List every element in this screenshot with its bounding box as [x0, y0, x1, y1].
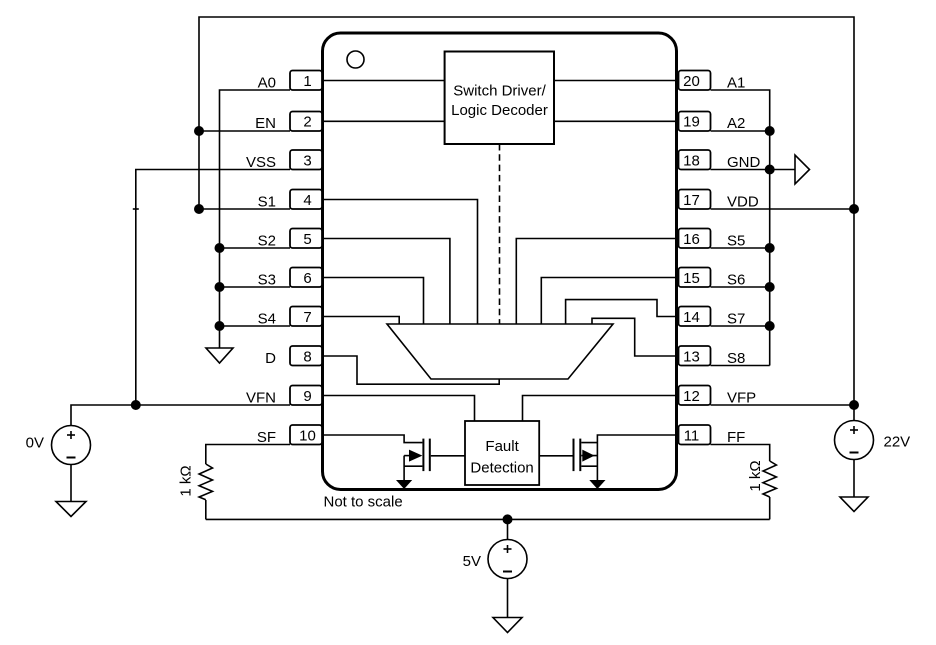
node S6 junction [765, 282, 775, 292]
wire S5 internal [516, 239, 677, 325]
svg-text:1 kΩ: 1 kΩ [178, 465, 195, 496]
svg-text:10: 10 [299, 428, 316, 445]
ground symbol below 5V [493, 618, 522, 633]
wire dashed decoder to mux [499, 144, 501, 324]
node tick on VSS vertical [133, 208, 139, 210]
wire resistor right to bottom bus [769, 497, 771, 519]
pin box 1 [290, 71, 322, 91]
transistor Q2 gate bar [573, 439, 575, 472]
wire VFN to 0V source [71, 405, 290, 426]
svg-text:3: 3 [303, 153, 311, 170]
transistor Q2 channel bar [579, 439, 581, 472]
wire S3 stub [220, 286, 291, 288]
pin box 16 [679, 229, 711, 249]
svg-text:EN: EN [255, 115, 276, 132]
svg-text:11: 11 [684, 428, 700, 445]
wire S8 stub [711, 365, 770, 367]
svg-text:6: 6 [303, 270, 311, 287]
svg-text:7: 7 [303, 309, 311, 326]
pin 1 marker circle [347, 51, 364, 68]
pin box 17 [679, 190, 711, 210]
node EN junction [194, 126, 204, 136]
wire Q1 gate to fault detection [431, 455, 465, 457]
svg-text:0V: 0V [26, 435, 44, 452]
svg-text:Switch Driver/: Switch Driver/ [453, 83, 546, 100]
svg-text:S7: S7 [727, 311, 745, 328]
svg-text:Detection: Detection [470, 460, 533, 477]
wire Q1 source stub [404, 465, 422, 467]
svg-text:VFP: VFP [727, 390, 756, 407]
pin box 14 [679, 307, 711, 327]
svg-text:VFN: VFN [246, 390, 276, 407]
IC body U1 [323, 33, 677, 490]
wire S1 internal [324, 200, 478, 325]
wire S5 stub [711, 247, 770, 249]
wire bottom bus [206, 518, 770, 520]
wire VFP internal to fault detection [523, 396, 678, 422]
wire S4 internal [324, 317, 399, 325]
wire S7 internal [566, 300, 677, 324]
svg-text:S5: S5 [727, 233, 745, 250]
svg-text:12: 12 [683, 388, 700, 405]
transistor Q1 channel bar [422, 439, 424, 472]
voltage source 5V [488, 540, 527, 579]
node 5V junction [503, 514, 513, 524]
svg-text:GND: GND [727, 154, 761, 171]
pin box 5 [290, 229, 322, 249]
pin box 3 [290, 150, 322, 170]
wire A2 stub [711, 130, 770, 132]
wire A1 right vertical bus [711, 90, 770, 366]
ground symbol below 22V [840, 497, 868, 512]
node S3 junction [215, 282, 225, 292]
node S1 junction [194, 204, 204, 214]
svg-text:9: 9 [303, 388, 311, 405]
wire D internal to mux output [324, 356, 499, 384]
pin box 11 [679, 425, 711, 445]
svg-text:16: 16 [683, 231, 700, 248]
pin box 7 [290, 307, 322, 327]
transistor Q1 gate bar [429, 439, 431, 472]
svg-text:13: 13 [683, 349, 700, 366]
svg-text:Not to scale: Not to scale [324, 494, 403, 511]
svg-text:FF: FF [727, 429, 745, 446]
wire Q2 body stub [581, 455, 597, 457]
wire pin19 to decoder [554, 120, 677, 122]
wire Q2 gate to fault detection [539, 455, 572, 457]
svg-text:S6: S6 [727, 272, 745, 289]
svg-text:Fault: Fault [485, 438, 519, 455]
arrow Q1 substrate [396, 480, 412, 489]
wire SF to resistor R-left [206, 445, 290, 465]
svg-text:Logic Decoder: Logic Decoder [451, 102, 548, 119]
pin box 10 [290, 425, 322, 445]
pin box 18 [679, 150, 711, 170]
wire S8 internal [592, 318, 677, 356]
svg-text:S2: S2 [258, 233, 276, 250]
svg-text:17: 17 [683, 192, 700, 209]
wire pin2 to decoder [324, 120, 445, 122]
wire S6 internal [541, 278, 677, 325]
ground symbol below S4 bus [206, 348, 233, 363]
wire VDD to rail [711, 208, 855, 210]
node A2 junction [765, 126, 775, 136]
node S2 junction [215, 243, 225, 253]
wire 0V source to ground [70, 465, 72, 502]
wire FF internal to transistor Q2 [597, 435, 677, 481]
svg-text:A0: A0 [258, 75, 276, 92]
pin box 2 [290, 112, 322, 132]
wire top bus EN/S1 to VDD rail [199, 17, 854, 421]
wire VFN internal to fault detection [324, 396, 475, 422]
voltage source 22V [835, 421, 874, 460]
wire S2 stub [220, 247, 291, 249]
resistor R2 1 kOhm right [763, 461, 776, 497]
wire VSS down to VFN net [136, 170, 290, 406]
resistor R1 1 kOhm left [199, 464, 212, 500]
mux trapezoid [387, 324, 613, 379]
svg-text:A1: A1 [727, 75, 745, 92]
pin box 20 [679, 71, 711, 91]
svg-text:4: 4 [303, 192, 311, 209]
pin box 15 [679, 268, 711, 288]
wire VFP to 22V rail [711, 404, 855, 406]
wire S1 stub [199, 208, 290, 210]
ground symbol below 0V [56, 502, 86, 517]
svg-text:2: 2 [303, 114, 311, 131]
node S7 junction [765, 321, 775, 331]
svg-text:5: 5 [303, 231, 311, 248]
voltage source 0V [52, 426, 91, 465]
wire SF internal to transistor Q1 drain [324, 435, 422, 443]
node S5 junction [765, 243, 775, 253]
pin box 12 [679, 386, 711, 406]
node S4 junction [215, 321, 225, 331]
svg-text:S3: S3 [258, 272, 276, 289]
wire A0 vertical bus to S2/S3/S4 [220, 90, 291, 348]
svg-text:D: D [265, 350, 276, 367]
wire pin20 to decoder [554, 80, 677, 82]
svg-text:A2: A2 [727, 115, 745, 132]
pin box 19 [679, 112, 711, 132]
svg-text:8: 8 [303, 349, 311, 366]
pin box 4 [290, 190, 322, 210]
node VFP junction [849, 400, 859, 410]
wire FF to resistor R-right [711, 445, 770, 462]
svg-text:1 kΩ: 1 kΩ [747, 460, 764, 491]
svg-text:14: 14 [683, 309, 700, 326]
wire pin1 to decoder [324, 80, 445, 82]
wire S3 internal [324, 278, 424, 325]
wire S7 stub [711, 325, 770, 327]
svg-text:20: 20 [683, 73, 700, 90]
wire Q2 drain stub [581, 442, 597, 444]
wire GND to ground arrow [770, 169, 795, 171]
svg-text:5V: 5V [463, 553, 481, 570]
svg-text:VDD: VDD [727, 194, 759, 211]
node GND junction [765, 165, 775, 175]
wire Q1 body stub [404, 455, 410, 457]
arrow Q2 substrate [589, 480, 605, 489]
wire EN stub [199, 130, 290, 132]
pin box 8 [290, 346, 322, 366]
svg-text:S8: S8 [727, 350, 745, 367]
ground symbol GND arrow [795, 155, 810, 184]
wire Q2 source stub [581, 465, 597, 467]
wire 5V source tap [507, 519, 509, 539]
wire S6 stub [711, 286, 770, 288]
svg-text:22V: 22V [884, 434, 911, 451]
svg-text:SF: SF [257, 429, 276, 446]
svg-text:15: 15 [683, 270, 700, 287]
pin box 13 [679, 346, 711, 366]
node VSS-VFN junction [131, 400, 141, 410]
svg-text:VSS: VSS [246, 154, 276, 171]
svg-text:1: 1 [303, 73, 311, 90]
transistor Q2 body arrow [582, 450, 594, 462]
wire 22V to ground [853, 460, 855, 498]
wire resistor left to bottom bus [205, 500, 207, 519]
svg-text:S1: S1 [258, 194, 276, 211]
wire S4 stub [220, 325, 291, 327]
pin box 6 [290, 268, 322, 288]
pin box 9 [290, 386, 322, 406]
svg-text:19: 19 [683, 114, 700, 131]
svg-text:18: 18 [683, 153, 700, 170]
node VDD junction [849, 204, 859, 214]
wire GND stub [711, 169, 770, 171]
wire Q1 body vertical [403, 456, 405, 481]
wire S2 internal [324, 239, 450, 325]
block Fault Detection [465, 421, 539, 485]
transistor Q1 body arrow [409, 450, 422, 462]
wire 5V to ground [507, 579, 509, 618]
block Switch Driver / Logic Decoder [445, 52, 554, 145]
svg-text:S4: S4 [258, 311, 276, 328]
